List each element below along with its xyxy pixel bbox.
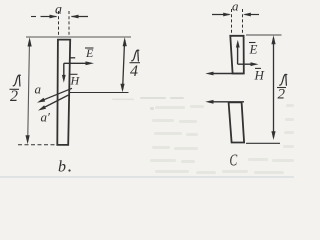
label lambda/2 (c right) (277, 75, 287, 103)
ray a' (45, 95, 69, 107)
left arrow 1 head (c) (205, 72, 213, 76)
lambda/4 dim line (b) (123, 40, 125, 90)
lower strip c (229, 102, 245, 142)
H arrow (c) (238, 63, 255, 65)
left arrow 1 (c) (210, 73, 244, 75)
lambda/4 arrowheads (b) (123, 37, 127, 46)
svg-text:C: C (230, 151, 238, 170)
svg-text:2: 2 (10, 88, 18, 105)
left arrow 2 head (c) (205, 100, 213, 104)
svg-text:H: H (254, 68, 265, 83)
svg-text:2: 2 (278, 87, 286, 103)
H arrow (b) (63, 63, 65, 79)
arrowheads (26, 13, 276, 145)
lambda/2 top extension (c) (246, 34, 282, 36)
E arrow (b) (64, 62, 90, 64)
svg-text:E: E (249, 42, 258, 57)
svg-text:a′: a′ (41, 110, 51, 125)
dim a (b) left tail dash (31, 16, 36, 18)
lambda/2 bottom extension (c) (246, 142, 280, 144)
ray a (44, 88, 72, 99)
E arrowhead (c) (236, 40, 240, 48)
ray a' arrowhead (38, 105, 46, 110)
strip b outline (57, 40, 70, 145)
dim a (c) arrows (212, 14, 230, 16)
label lambda/4 (b right) (130, 50, 141, 80)
dim a (b) extension dashes (59, 11, 70, 37)
E arrowhead (b) (86, 61, 95, 65)
period after b (68, 169, 70, 171)
label H bar (b) (70, 74, 81, 88)
dim a (b) arrows (41, 16, 57, 18)
label H bar (c) (254, 68, 265, 83)
bottom extension dashed (b) (18, 144, 57, 146)
label E bar (b) (85, 46, 94, 60)
lambda/2 dim line (b) (28, 40, 30, 142)
svg-text:b: b (58, 159, 66, 176)
feed tick (b) (71, 57, 76, 59)
label lambda/2 (b left) (10, 75, 21, 105)
paper background (0, 0, 294, 178)
label E bar (c) (249, 42, 258, 57)
E arrow (c) (237, 44, 239, 65)
svg-text:a: a (35, 82, 42, 97)
ray a arrowhead (37, 98, 45, 103)
H arrowhead (c) (251, 62, 259, 66)
lambda/2 arrowheads (c) (271, 35, 275, 44)
lambda/4 bottom extension line (69, 92, 129, 94)
svg-text:a: a (55, 3, 62, 18)
a-dim arrowheads (c) (223, 13, 231, 17)
svg-text:H: H (70, 74, 81, 88)
dim a (c) extension dashes (232, 9, 243, 34)
a-dim arrowheads (b) (50, 15, 58, 19)
lambda/2 dim line (c) (273, 38, 275, 137)
left arrow 2 (c) (210, 101, 245, 103)
lambda/2 arrowheads (b) (28, 37, 32, 46)
bleed-through text ghosts (right half) (150, 104, 294, 174)
svg-text:4: 4 (130, 63, 138, 80)
faint ghost marks (0, 97, 294, 178)
top extension line (b) (26, 36, 131, 38)
upper strip c (230, 36, 244, 74)
svg-text:a: a (232, 0, 239, 13)
H arrowhead (b) (62, 75, 66, 83)
